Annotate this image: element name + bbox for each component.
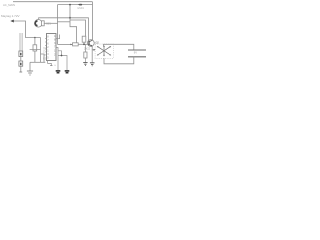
wire R2 bottom (34, 51, 36, 62)
wire second top rail (58, 4, 93, 6)
wire main vertical (57, 5, 59, 45)
IC right lower pins (56, 48, 58, 71)
svg-text:RS: RS (43, 58, 47, 60)
resistor R5 pulldown (84, 44, 86, 52)
transistor Q1 (87, 40, 94, 47)
wire vertical x40.5 (40, 38, 42, 63)
junction dot top (80, 4, 82, 6)
polarity bar (20, 53, 22, 56)
resistor R4 box upper (82, 36, 86, 42)
wire buzzer top stub (37, 18, 39, 20)
IC right pin stub 8 (56, 38, 58, 40)
svg-text:AC_MAIN: AC_MAIN (3, 3, 15, 7)
ground GND2 (56, 71, 61, 73)
tick ground (50, 64, 52, 66)
dashed box load (95, 44, 113, 58)
wire R2 top (34, 38, 36, 45)
junction dot (69, 17, 71, 19)
buzzer BZ1 (35, 20, 43, 28)
wire branch y21.8 (58, 21, 71, 23)
resistor R2 box middle (33, 45, 37, 51)
wire resistor to base (78, 43, 89, 45)
ground GND1 (27, 71, 33, 75)
component box2 (19, 61, 23, 66)
battery BT1 plate top (128, 49, 146, 51)
ground R5 (83, 63, 87, 66)
wire emitter to load arrow (92, 49, 94, 51)
arrow marker on wire (70, 44, 72, 46)
node arrow marker (78, 4, 81, 6)
svg-text:GND1: GND1 (77, 7, 84, 10)
svg-text:2N22: 2N22 (84, 47, 91, 50)
wire battery bottom loop (104, 57, 134, 64)
battery BT1 plate bottom (128, 56, 146, 58)
IC pin numbers left (47, 36, 49, 60)
wire top rail (13, 1, 93, 3)
wire cross link (30, 49, 41, 51)
resistor R3 series (73, 43, 79, 46)
IC U1 body (47, 34, 57, 61)
junction dot R2 top (34, 37, 36, 39)
wire rail to ground left (29, 62, 31, 71)
IC bottom pin wire step (48, 61, 52, 66)
arrow input left (10, 20, 14, 23)
junction dot base (83, 43, 85, 45)
svg-text:CV: CV (43, 52, 47, 54)
wire branch y20 (70, 20, 86, 36)
wire ground rail left section (30, 61, 45, 63)
svg-text:Maytag 1.72V: Maytag 1.72V (1, 14, 20, 18)
wire load top to battery (104, 44, 134, 50)
ground emitter (90, 63, 95, 66)
IC left pin stubs (45, 38, 46, 40)
wire branch y17.8 (38, 18, 88, 41)
load arrows X (98, 46, 111, 56)
svg-text:9V: 9V (134, 50, 137, 54)
wire branch x70 (70, 5, 77, 43)
wire right drop (92, 2, 94, 41)
polarity bar 2 (20, 63, 22, 65)
wire IC out to resistor (58, 43, 73, 45)
wire emitter down (91, 46, 93, 62)
capacitor C1 box (19, 51, 23, 57)
terminator tick (19, 71, 22, 73)
IC pin numbers right (54, 35, 56, 56)
wire buzzer to vertical (44, 22, 58, 24)
svg-text:TR: TR (43, 48, 46, 50)
wire between (20, 57, 22, 62)
wire arrow to corner (14, 21, 41, 38)
svg-text:G: G (54, 65, 56, 67)
ground GND3 (65, 71, 70, 73)
wire branch to x44 (41, 54, 45, 62)
wire R4 to base wire (83, 42, 85, 44)
junction dot (61, 55, 63, 57)
junction dot x70 top (69, 4, 71, 6)
wire tail (20, 66, 22, 72)
IC left outside pin labels (43, 48, 47, 60)
capacitor C1 chain vertical pair (19, 33, 21, 51)
wire stub up (58, 35, 60, 39)
svg-text:TH: TH (43, 55, 46, 57)
